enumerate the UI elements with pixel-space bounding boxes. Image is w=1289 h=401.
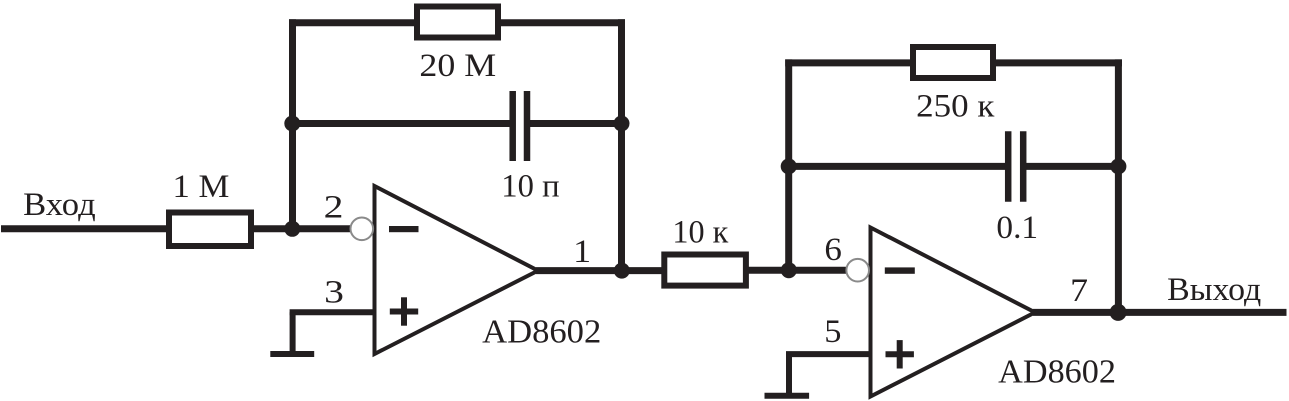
wire: vertical node A up to top feedback [289, 19, 296, 232]
svg-text:0.1: 0.1 [996, 210, 1038, 246]
op-amp U2 triangle [871, 228, 1036, 397]
node: junction dot R3/feedback2 [781, 262, 797, 278]
svg-text:6: 6 [824, 232, 842, 268]
wire: U1 output to R3 [536, 267, 665, 274]
wire: R3 to pin6 circle [745, 267, 847, 274]
resistor R1 (1 M) [169, 213, 251, 247]
wire: input to R1 [1, 225, 169, 232]
svg-text:1: 1 [573, 234, 591, 270]
svg-text:Выход: Выход [1167, 272, 1261, 308]
ground: bar of GND1 [270, 351, 314, 357]
wire: U2 output to Выход [1033, 309, 1287, 316]
op-amp U1 minus symbol [389, 226, 419, 232]
wire: R2 to top right [498, 19, 625, 26]
capacitor C1 (10 п) plates [513, 91, 527, 161]
svg-text:7: 7 [1070, 273, 1088, 309]
wire: pin3 of U1 [290, 309, 375, 315]
resistor R2 (20 M) [417, 7, 498, 38]
svg-text:Вход: Вход [23, 187, 96, 223]
wire: top left to R4 [785, 59, 913, 66]
svg-text:250 к: 250 к [916, 89, 995, 125]
node: junction dot feedback1 mid right [614, 116, 630, 132]
op-amp U1 inverting bubble (pin 2) [351, 218, 374, 241]
node: junction dot U2 output [1110, 304, 1127, 321]
wire: R1 to node A / pin2 circle [251, 225, 351, 232]
wire: C2 to mid feedback2 right [1026, 163, 1119, 170]
wire: left vertical of feedback 2 [785, 59, 792, 273]
node: junction dot feedback2 mid left [781, 158, 797, 174]
node: junction dot feedback1 mid left [284, 116, 300, 132]
svg-text:10 к: 10 к [672, 215, 729, 251]
wire: C1 to mid feedback right [530, 120, 622, 127]
wire: top left to R2 [289, 19, 417, 26]
ground: bar of GND2 [765, 393, 810, 399]
wire: mid feedback left to C1 [293, 120, 511, 127]
wire: right vertical of feedback 1 [618, 19, 625, 274]
svg-text:3: 3 [324, 274, 344, 310]
op-amp U1 plus symbol [390, 297, 418, 325]
ground: stem of GND1 [290, 312, 296, 354]
svg-text:AD8602: AD8602 [482, 313, 601, 350]
capacitor C2 (0.1) plates [1008, 131, 1023, 201]
node: junction dot feedback2 mid right [1110, 158, 1126, 174]
resistor R3 (10 к) [664, 255, 746, 286]
node: junction dot U1 output [614, 263, 630, 279]
op-amp U2 plus symbol [886, 340, 914, 368]
svg-text:AD8602: AD8602 [998, 353, 1116, 390]
wire: R4 to top right [993, 59, 1122, 66]
svg-text:5: 5 [824, 314, 841, 350]
op-amp U2 minus symbol [885, 267, 915, 273]
svg-text:10 п: 10 п [501, 169, 559, 205]
svg-text:20 М: 20 М [419, 48, 496, 84]
wire: pin5 of U2 [786, 351, 871, 357]
svg-text:1 М: 1 М [173, 169, 230, 205]
svg-text:2: 2 [324, 190, 344, 226]
ground: stem of GND2 [786, 354, 792, 396]
wire: right vertical of feedback 2 [1115, 59, 1122, 316]
wire: mid feedback2 left to C2 [789, 163, 1006, 170]
op-amp U2 inverting bubble (pin 6) [846, 259, 869, 282]
node A: junction dot input/R2 feedback [284, 221, 300, 237]
op-amp U1 triangle [375, 186, 539, 354]
resistor R4 (250 к) [913, 47, 993, 78]
